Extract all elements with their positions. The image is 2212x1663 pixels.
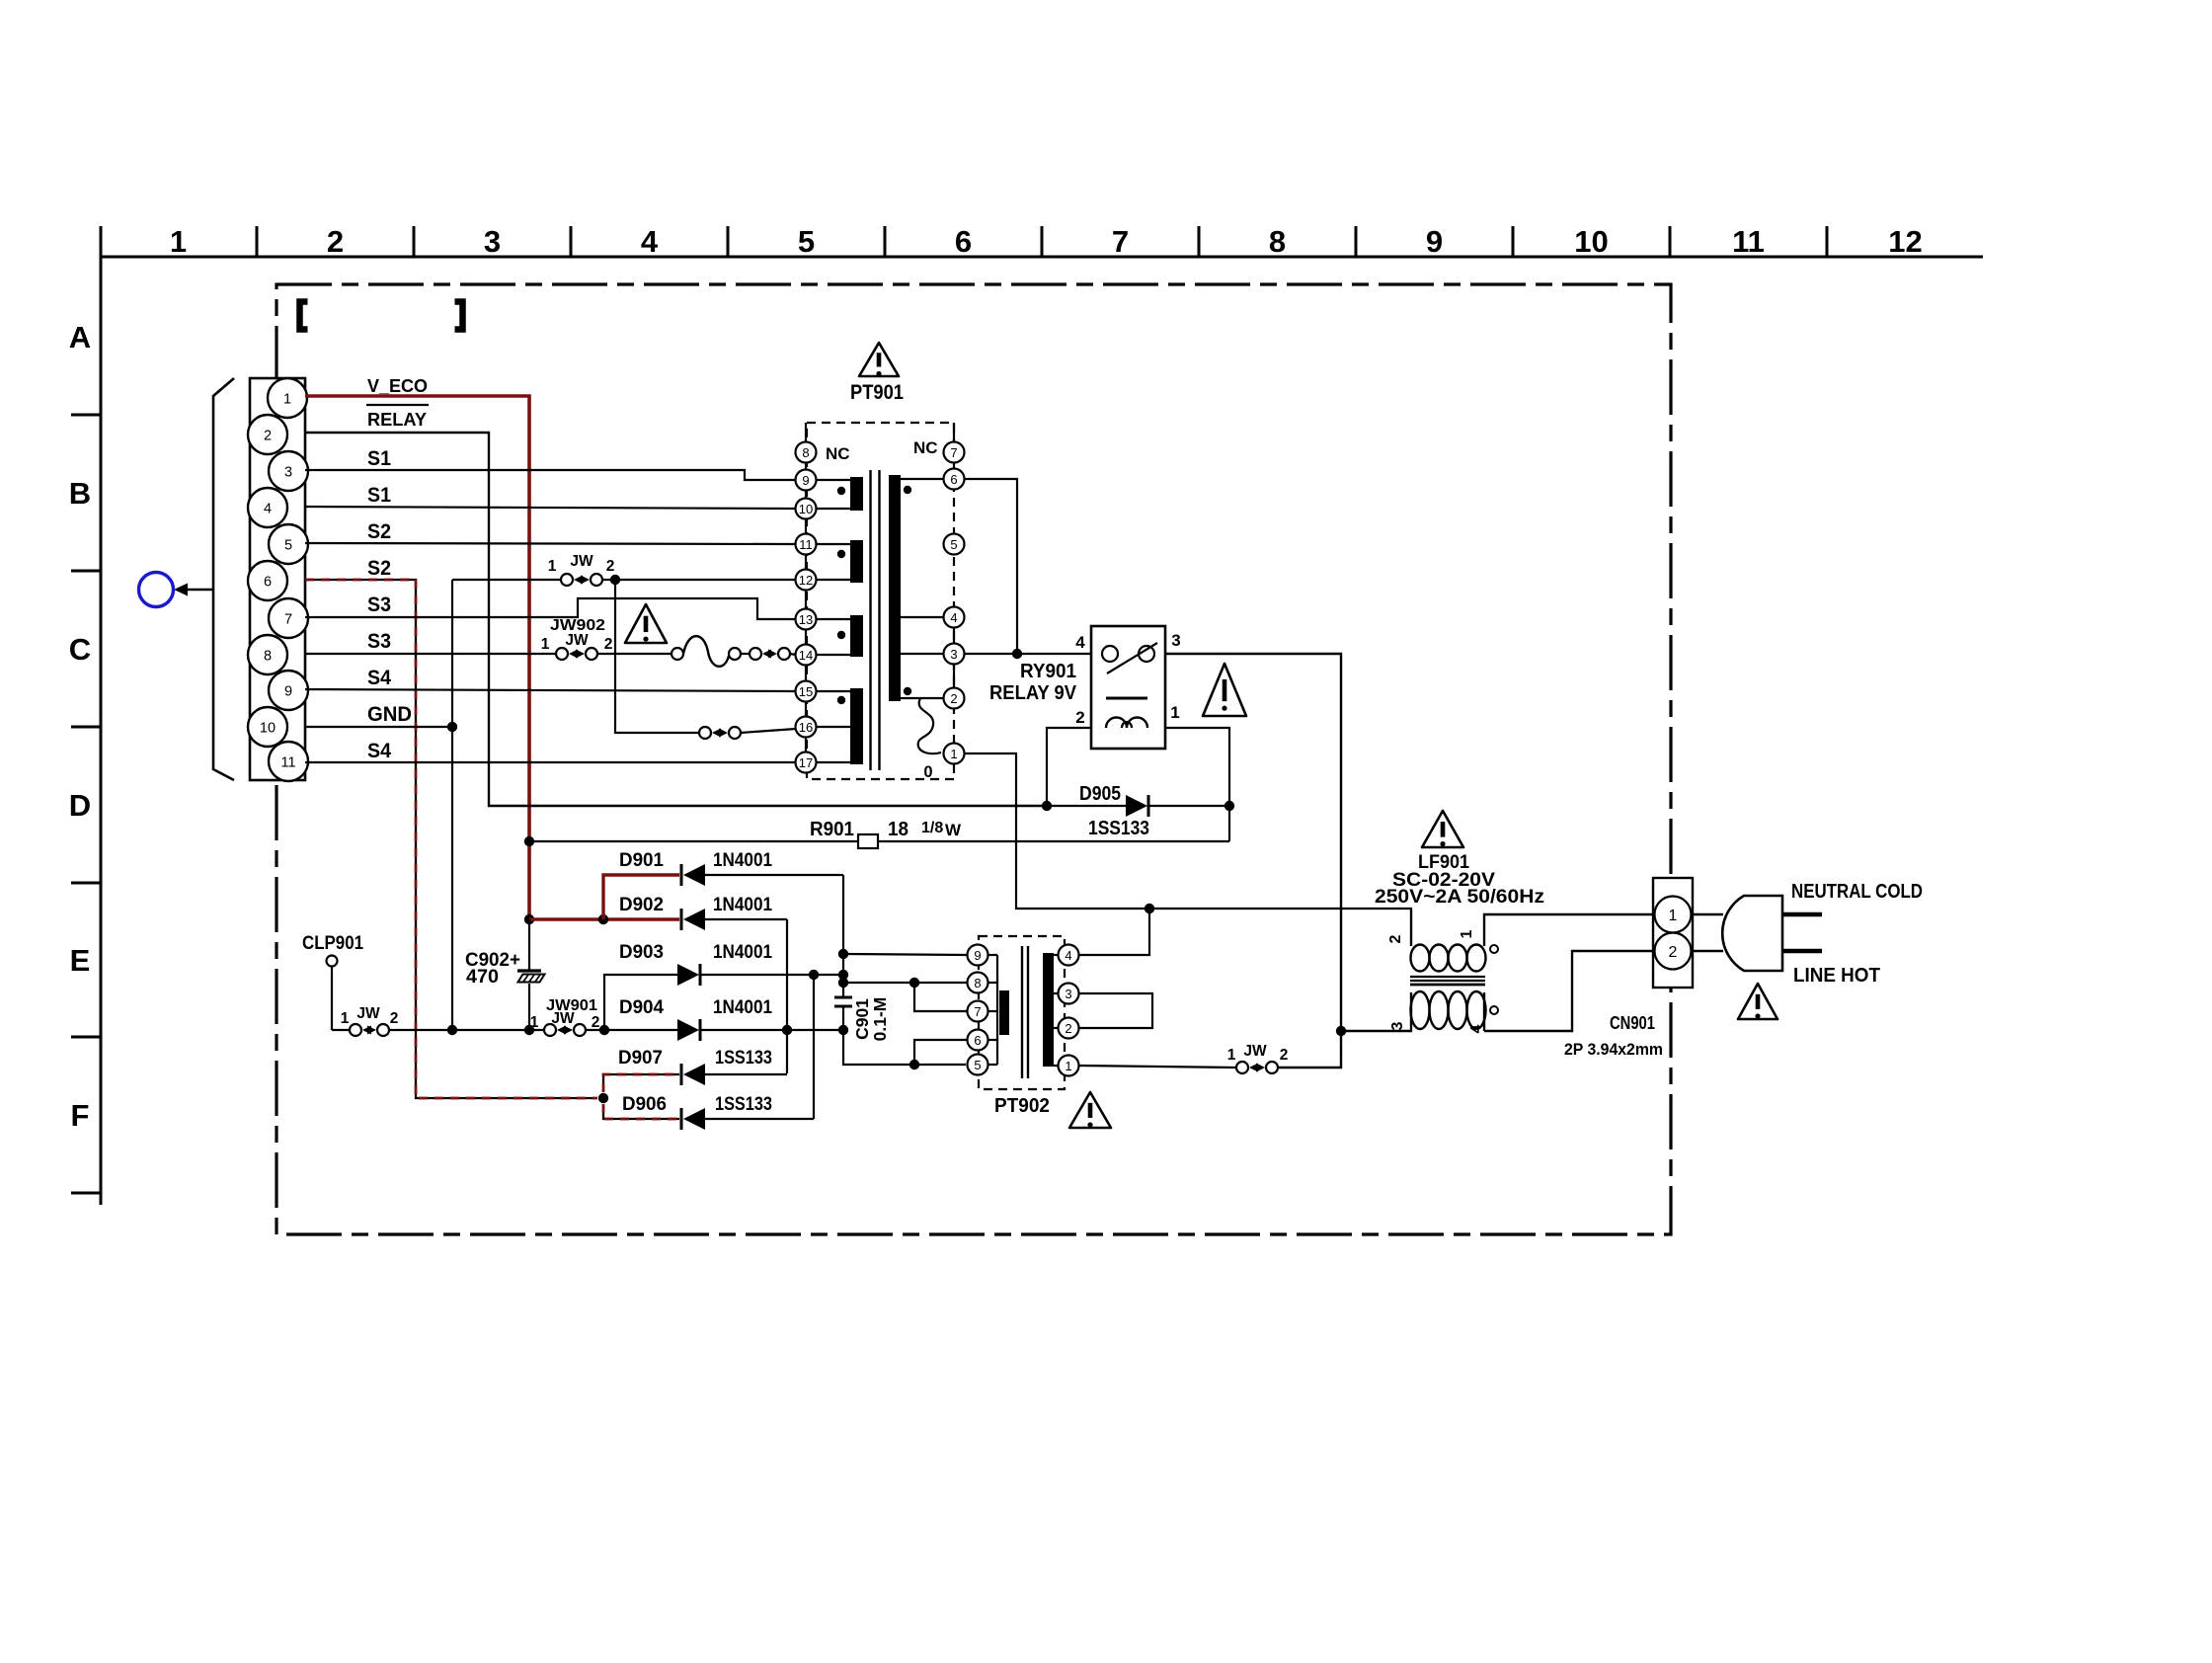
transformer PT902 dashed box: [979, 936, 1065, 1089]
PT902 primary winding bar: [999, 990, 1009, 1035]
wire to LF901 pin3: [1341, 1030, 1412, 1033]
node GND tee: [447, 722, 457, 732]
relay contact circles: [1102, 646, 1118, 662]
diode D905: [1046, 805, 1126, 807]
PT901 pin8 NC stub: [805, 423, 807, 443]
svg-text:CLP901: CLP901: [302, 933, 363, 954]
left ruler line: [100, 226, 103, 1205]
LF901 top coil: [1411, 945, 1486, 972]
connector pin 11: [269, 742, 308, 781]
node pin6/pin5 junction: [909, 1060, 919, 1069]
connector CN901 body: [1653, 878, 1693, 988]
wire pin8 line: [843, 982, 968, 984]
wire pin9 line: [843, 954, 968, 955]
PT901 pin 17: [796, 752, 817, 773]
node pin7 branch: [909, 978, 919, 988]
svg-text:1: 1: [530, 1014, 539, 1031]
transformer PT901 dashed box: [807, 423, 954, 779]
svg-text:2P 3.94x2mm: 2P 3.94x2mm: [1564, 1040, 1663, 1059]
wire D903 node down to D906: [813, 975, 815, 1119]
blue off-page node circle: [139, 573, 174, 607]
CN901 pin 2: [1655, 933, 1692, 970]
wire PT902 pin6 branch: [914, 1040, 968, 1065]
svg-text:2: 2: [592, 1014, 600, 1031]
PT901 pin 4: [944, 607, 965, 628]
connector pin 7: [269, 598, 308, 638]
svg-text:0.1-M: 0.1-M: [870, 997, 890, 1042]
svg-text:1: 1: [541, 636, 550, 653]
PT901 pin 7: [944, 442, 965, 463]
wire S2 tap to JW jumper and PT901 pin12: [452, 579, 561, 581]
PT901 pin 8: [796, 442, 817, 463]
svg-text:12: 12: [799, 573, 813, 588]
PT902 secondary leads: [1054, 955, 1059, 1066]
wire PT901 pin3 to relay pin4: [965, 653, 1090, 655]
svg-text:S1: S1: [367, 484, 391, 507]
plug neutral prong: [1782, 912, 1822, 917]
diode D903: [677, 964, 699, 986]
svg-text:S2: S2: [367, 520, 391, 543]
warning triangle LF901: [1422, 811, 1463, 847]
svg-text:11: 11: [799, 537, 813, 552]
PT901 pin 16: [796, 717, 817, 738]
svg-text:1N4001: 1N4001: [713, 996, 772, 1018]
svg-text:1: 1: [1170, 703, 1179, 722]
svg-text:1: 1: [1065, 1059, 1071, 1073]
left lens bracket mark: [300, 302, 308, 330]
node LF901 pin3 junction: [1336, 1026, 1346, 1036]
connector pin 9: [269, 671, 308, 710]
svg-text:C901: C901: [852, 998, 872, 1040]
wire C902 bottom: [528, 984, 530, 1030]
relay coil: [1106, 697, 1147, 700]
svg-text:8: 8: [1269, 224, 1286, 259]
jumper (pin14 line): [741, 653, 750, 655]
node D904 column junction: [838, 1025, 848, 1035]
plug line prong: [1782, 949, 1822, 954]
svg-text:3: 3: [1171, 631, 1180, 650]
connector pin 3: [269, 451, 308, 491]
svg-text:W: W: [945, 821, 962, 839]
svg-text:12: 12: [1888, 224, 1922, 259]
wire relay pin1 to D905 cathode node: [1165, 728, 1229, 806]
svg-text:2: 2: [1280, 1047, 1289, 1064]
node D901 branch: [598, 914, 608, 924]
svg-text:1N4001: 1N4001: [713, 941, 772, 963]
svg-text:5: 5: [284, 538, 292, 554]
PT902 core lines: [1021, 946, 1023, 1078]
wire D901 down to C901 node: [842, 875, 844, 954]
node D903 out junction: [809, 970, 819, 980]
connector pin 8: [248, 635, 287, 674]
svg-text:4: 4: [1468, 1024, 1485, 1033]
wire CN901 pin2 to plug: [1692, 950, 1723, 952]
svg-text:2: 2: [327, 224, 344, 259]
svg-text:2: 2: [390, 1010, 399, 1027]
jumper JW (CLP901 rail): [332, 1029, 350, 1031]
node pin6/pin3 junction: [1012, 649, 1022, 659]
wire CN901 pin1 to plug: [1692, 913, 1723, 915]
svg-text:9: 9: [284, 684, 292, 700]
top ruler line: [100, 256, 1983, 259]
wire R901 line: [529, 840, 858, 842]
PT902 primary winding line: [996, 955, 998, 1065]
node pin8 feed junction: [838, 978, 848, 988]
PT902 pin 2: [1059, 1018, 1079, 1039]
PT902 primary leads: [987, 955, 997, 1065]
PT902 pin 3: [1059, 984, 1079, 1004]
LF901 pin1 terminal: [1490, 945, 1498, 953]
svg-text:D903: D903: [619, 941, 664, 963]
wire S1 pin3 to PT901 pin9: [305, 470, 796, 480]
svg-text:S4: S4: [367, 667, 391, 689]
node C902 rail junction: [524, 1025, 534, 1035]
svg-text:NEUTRAL COLD: NEUTRAL COLD: [1791, 881, 1923, 903]
svg-text:14: 14: [799, 648, 813, 663]
PT901 pin 14: [796, 645, 817, 666]
connector pin 4: [248, 488, 287, 527]
jumper JW902: [556, 648, 568, 660]
svg-text:3: 3: [1389, 1021, 1406, 1030]
svg-text:JW: JW: [551, 1010, 575, 1027]
left ruler ticks: [71, 415, 101, 1193]
wire LF901 pin1 up to CN901 pin1: [1484, 914, 1654, 946]
relay armature: [1107, 643, 1157, 673]
svg-text:1: 1: [341, 1010, 350, 1027]
svg-text:9: 9: [1426, 224, 1443, 259]
diode D906: [680, 1108, 683, 1130]
connector pin 6: [248, 561, 287, 600]
PT901 pin 6: [944, 469, 965, 490]
svg-text:4: 4: [950, 610, 957, 625]
svg-text:7: 7: [284, 612, 292, 628]
capacitor C901: [834, 996, 852, 999]
svg-text:2: 2: [264, 429, 272, 444]
PT901 pin 12: [796, 570, 817, 591]
svg-text:RELAY 9V: RELAY 9V: [989, 682, 1077, 704]
connector pin 5: [269, 524, 308, 564]
svg-text:5: 5: [798, 224, 815, 259]
svg-text:1: 1: [1459, 929, 1475, 938]
wire C901 column: [842, 954, 844, 997]
thermal protector squiggle: [671, 648, 683, 660]
svg-text:3: 3: [1065, 987, 1071, 1001]
wire RELAY (pin2): [305, 433, 1046, 806]
wire V_ECO (pin1, thick red): [305, 396, 529, 919]
svg-text:2: 2: [606, 558, 615, 575]
wire S1 pin4 to PT901 pin10: [305, 507, 796, 509]
off-sheet arrow to blue node: [184, 589, 213, 591]
wire PT902 pin3 to pin2: [1079, 993, 1152, 1028]
svg-text:7: 7: [974, 1004, 981, 1019]
PT901 secondary winding bar: [889, 475, 901, 701]
PT902 pin 8: [968, 973, 988, 993]
svg-text:S2: S2: [367, 557, 391, 580]
svg-text:6: 6: [974, 1033, 981, 1048]
connector pin 1: [268, 378, 307, 418]
node V_ECO/R901 junction: [524, 836, 534, 846]
svg-text:D905: D905: [1079, 783, 1121, 805]
wire PT901 pin1 to LF901 line: [965, 753, 1412, 909]
svg-text:2: 2: [1387, 934, 1404, 943]
svg-text:E: E: [70, 943, 91, 978]
svg-text:2: 2: [1075, 708, 1084, 727]
svg-text:1N4001: 1N4001: [713, 894, 772, 915]
wire S4 pin9 to PT901 pin15: [305, 689, 796, 691]
svg-text:JW: JW: [356, 1005, 380, 1022]
svg-text:2: 2: [604, 636, 613, 653]
PT901 pin 13: [796, 609, 817, 630]
warning triangle near relay: [1203, 664, 1246, 716]
svg-text:17: 17: [799, 755, 813, 770]
jumper JW901: [544, 1024, 556, 1036]
svg-text:1SS133: 1SS133: [715, 1093, 772, 1115]
LF901 bottom coil: [1411, 991, 1486, 1029]
wire S4 pin11 to PT901 pin17: [305, 761, 796, 763]
svg-text:7: 7: [1112, 224, 1129, 259]
PT902 secondary winding bar: [1043, 953, 1054, 1067]
svg-text:4: 4: [264, 502, 272, 517]
right lens bracket mark: [455, 302, 463, 330]
svg-text:NC: NC: [826, 444, 850, 463]
svg-text:6: 6: [955, 224, 972, 259]
node D903 column junction: [838, 970, 848, 980]
wire to PT902 pin7: [914, 983, 968, 1011]
svg-text:S3: S3: [367, 594, 391, 616]
node V_ECO to D902 elbow: [524, 914, 534, 924]
connector pin 10: [248, 707, 287, 747]
wire D902 down to rail: [786, 919, 788, 1073]
svg-text:3: 3: [484, 224, 501, 259]
svg-text:D902: D902: [619, 894, 664, 915]
svg-text:13: 13: [799, 612, 813, 627]
board outline dash-dot border: [276, 284, 1671, 1234]
svg-text:15: 15: [799, 684, 813, 699]
LF901 core: [1410, 976, 1485, 978]
svg-text:11: 11: [1732, 224, 1765, 259]
wire red to D902: [529, 917, 679, 920]
left ruler letters A-F: [69, 320, 91, 1133]
svg-text:16: 16: [799, 720, 813, 735]
svg-text:5: 5: [950, 537, 957, 552]
PT901 core lines: [869, 470, 871, 770]
connector body: [250, 378, 305, 780]
svg-text:1: 1: [170, 224, 187, 259]
svg-text:S4: S4: [367, 740, 391, 762]
svg-text:PT901: PT901: [850, 381, 904, 404]
relay RY901 body: [1091, 626, 1165, 749]
wire S2 pin5 to PT901 pin11: [305, 543, 796, 544]
PT901 pin2-pin1 0-ohm squiggle: [918, 698, 941, 753]
svg-text:S3: S3: [367, 630, 391, 653]
svg-text:6: 6: [950, 472, 957, 487]
jumper JW (S2 line): [561, 574, 573, 586]
diode D901: [680, 864, 683, 886]
svg-text:S1: S1: [367, 447, 391, 470]
wire JW902 to thermal link: [597, 653, 671, 655]
wire relay pin3 to LF901 pin3: [1165, 654, 1341, 1068]
svg-text:JW: JW: [565, 632, 589, 649]
warning triangle near plug: [1738, 984, 1777, 1019]
svg-text:7: 7: [950, 445, 957, 460]
svg-text:10: 10: [1574, 224, 1608, 259]
svg-text:2: 2: [950, 691, 957, 706]
svg-text:8: 8: [802, 445, 809, 460]
warning triangle near PT902: [1069, 1092, 1111, 1128]
PT902 pin 5: [968, 1055, 988, 1075]
node D903 branch: [599, 1025, 609, 1035]
top ruler numbers 1-12: [170, 224, 1923, 259]
PT901 right solid chain segments: [953, 423, 955, 443]
node JW-2 junction: [610, 575, 620, 585]
svg-text:1: 1: [950, 747, 957, 761]
PT901 pin 9: [796, 470, 817, 491]
PT901 pin 15: [796, 681, 817, 702]
wire PT902 pin4 up to mains run: [1079, 909, 1149, 955]
PT902 pin 6: [968, 1030, 988, 1051]
svg-text:1: 1: [1227, 1047, 1236, 1064]
wire column to PT902 pin5: [843, 1030, 966, 1065]
capacitor C902 (polarized): [517, 969, 541, 972]
svg-text:C: C: [69, 632, 91, 667]
wire LF901 pin3 stub: [1410, 992, 1412, 1031]
connector harness bracket: [213, 378, 234, 780]
svg-text:9: 9: [802, 473, 809, 488]
CN901 pin 1: [1655, 897, 1692, 933]
svg-text:CN901: CN901: [1610, 1013, 1655, 1033]
svg-text:D907: D907: [618, 1047, 663, 1069]
PT901 pin 2: [944, 688, 965, 709]
svg-text:F: F: [71, 1098, 90, 1133]
PT901 secondary phase dots: [904, 486, 911, 695]
node GND rail junction: [447, 1025, 457, 1035]
wire JW901 to D904: [586, 1029, 677, 1031]
svg-text:PT902: PT902: [994, 1095, 1050, 1117]
svg-text:JW: JW: [1243, 1043, 1267, 1060]
svg-text:250V~2A 50/60Hz: 250V~2A 50/60Hz: [1375, 887, 1544, 908]
wire CLP901 down: [331, 966, 333, 1030]
svg-text:D906: D906: [622, 1093, 667, 1115]
node pin9 junction: [838, 949, 848, 959]
svg-text:4: 4: [1075, 633, 1085, 652]
wire into LF901 pin2: [1410, 909, 1412, 946]
PT901 pin 1: [944, 744, 965, 764]
wire PT901 pin6 down to contact line: [965, 479, 1017, 654]
svg-text:JW: JW: [570, 553, 593, 570]
wire PT902 pin1 to jumper: [1079, 1066, 1236, 1068]
svg-text:B: B: [69, 476, 91, 511]
svg-text:6: 6: [264, 575, 272, 591]
AC plug body: [1722, 896, 1782, 971]
svg-text:1N4001: 1N4001: [713, 849, 772, 871]
diode D907: [680, 1064, 683, 1085]
wire rail to JW901: [389, 1029, 544, 1031]
wire red up to D901: [603, 875, 679, 919]
diode D904: [677, 1019, 699, 1041]
svg-text:9: 9: [974, 948, 981, 963]
wire S3 pin8 to JW902: [305, 653, 556, 655]
wire pin12 tap down to PT901 pin16 jumper: [615, 580, 699, 733]
connector pin 2: [248, 415, 287, 454]
svg-text:0: 0: [923, 763, 932, 781]
PT901 pin 11: [796, 534, 817, 555]
wire R901 to relay pin1 node: [1228, 806, 1230, 841]
jumper (PT901 pin16 line): [699, 727, 711, 739]
wire S2 pin6 dashed red to D906/D907: [305, 580, 597, 1098]
PT901 primary phase dots: [837, 487, 845, 704]
svg-text:11: 11: [280, 755, 295, 771]
PT901 left pin-to-winding leads: [816, 480, 850, 762]
svg-text:GND: GND: [367, 703, 412, 726]
svg-text:1SS133: 1SS133: [1088, 818, 1149, 839]
transformer PT901 warning triangle: [859, 343, 899, 376]
resistor R901 body: [858, 834, 878, 848]
svg-text:D: D: [69, 788, 91, 823]
svg-text:4: 4: [1065, 948, 1071, 963]
wire up to D903: [604, 975, 677, 1030]
svg-text:1SS133: 1SS133: [715, 1047, 772, 1069]
svg-text:1: 1: [1669, 908, 1678, 924]
wire LF901 pin4 to CN901 pin2: [1484, 951, 1654, 1031]
wire C902 top: [528, 919, 530, 970]
svg-text:2: 2: [1669, 944, 1678, 961]
PT902 pin 7: [968, 1001, 988, 1022]
node pin4 junction on mains run: [1145, 904, 1154, 913]
svg-text:D901: D901: [619, 849, 664, 871]
node S2 dashed-red junction: [598, 1093, 608, 1103]
svg-text:18: 18: [888, 819, 908, 840]
PT902 pin 9: [968, 945, 988, 966]
PT901 pin 10: [796, 499, 817, 519]
svg-text:D904: D904: [619, 996, 664, 1018]
svg-text:4: 4: [641, 224, 659, 259]
PT901 pin 5: [944, 534, 965, 555]
PT902 pin 1: [1059, 1056, 1079, 1076]
wire S3 pin7 to PT901 pin13 (jogged): [305, 598, 796, 619]
node D905 cathode junction: [1224, 801, 1234, 811]
svg-text:3: 3: [950, 647, 957, 662]
svg-text:1: 1: [548, 558, 557, 575]
top ruler ticks: [257, 226, 1827, 257]
PT901 secondary leads: [901, 478, 944, 480]
svg-text:8: 8: [264, 649, 272, 665]
svg-text:470: 470: [466, 967, 499, 988]
svg-text:1/8: 1/8: [921, 820, 943, 836]
svg-text:LINE HOT: LINE HOT: [1793, 965, 1880, 987]
jumper JW (PT902 pin1 line): [1236, 1062, 1248, 1073]
PT902 pin 4: [1059, 945, 1079, 966]
svg-text:RY901: RY901: [1020, 661, 1076, 682]
node D905 anode junction: [1042, 801, 1052, 811]
svg-text:2: 2: [1065, 1021, 1071, 1036]
wire dashed red up to D907: [603, 1074, 679, 1092]
svg-text:RELAY: RELAY: [367, 409, 428, 430]
svg-text:NC: NC: [913, 438, 938, 457]
PT901 primary winding bars: [850, 477, 863, 511]
svg-text:10: 10: [799, 502, 813, 516]
svg-text:1: 1: [283, 392, 291, 408]
svg-text:8: 8: [974, 976, 981, 990]
diode D902: [680, 909, 683, 930]
warning triangle near JW902: [625, 604, 667, 643]
svg-text:3: 3: [284, 465, 292, 481]
svg-text:10: 10: [260, 721, 276, 737]
PT901 left pin chain: [805, 443, 807, 771]
svg-text:V_ECO: V_ECO: [367, 375, 428, 396]
CLP901 terminal: [327, 956, 338, 967]
node D904/D902 junction: [782, 1025, 792, 1035]
wire GND vertical down: [451, 580, 453, 1030]
